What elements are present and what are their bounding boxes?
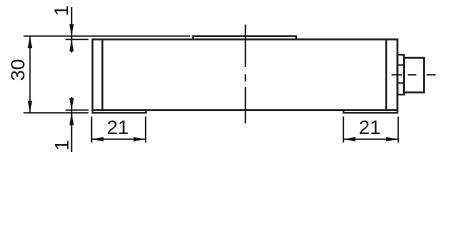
- arrow 21 left-left: [92, 137, 104, 141]
- arrow 30 up: [28, 36, 32, 48]
- inner wall right: [385, 39, 387, 110]
- vertical centerline: [244, 25, 246, 124]
- arrow 1 bottom up: [69, 113, 73, 126]
- dim line 1 bottom: [71, 97, 73, 152]
- svg-text:1: 1: [51, 5, 73, 16]
- dim 21 right line: [343, 138, 398, 140]
- dim line 30: [29, 36, 31, 113]
- body outline: [93, 39, 398, 110]
- connector flange: [397, 55, 404, 95]
- svg-text:21: 21: [359, 117, 381, 139]
- extension line body bottom: [66, 109, 89, 111]
- top lip: [193, 36, 296, 39]
- arrow 1 top down: [69, 24, 73, 36]
- extension line foot bottom: [24, 112, 89, 114]
- svg-text:1: 1: [52, 140, 74, 151]
- dim 21 left ext lines: [92, 117, 146, 143]
- dim 21 left line: [92, 138, 146, 140]
- right foot: [344, 110, 398, 113]
- svg-text:30: 30: [7, 59, 29, 81]
- extension line top (lip top): [24, 35, 191, 37]
- extension line body top: [66, 38, 89, 40]
- arrow 21 left-right: [134, 137, 146, 141]
- connector body: [404, 58, 424, 93]
- horizontal centerline connector: [392, 74, 436, 76]
- arrow 21 right-right: [386, 137, 398, 141]
- flange division upper: [397, 64, 404, 66]
- arrow 21 right-left: [343, 137, 355, 141]
- svg-text:21: 21: [107, 117, 129, 139]
- arrow 1 top up: [69, 39, 73, 51]
- flange division lower: [397, 82, 404, 84]
- dim 21 right ext lines: [343, 117, 398, 143]
- left foot: [93, 110, 147, 113]
- arrow 30 down: [28, 101, 32, 113]
- inner wall left: [101, 39, 103, 110]
- dim line 1 top: [71, 7, 73, 53]
- arrow 1 bottom down: [69, 98, 73, 110]
